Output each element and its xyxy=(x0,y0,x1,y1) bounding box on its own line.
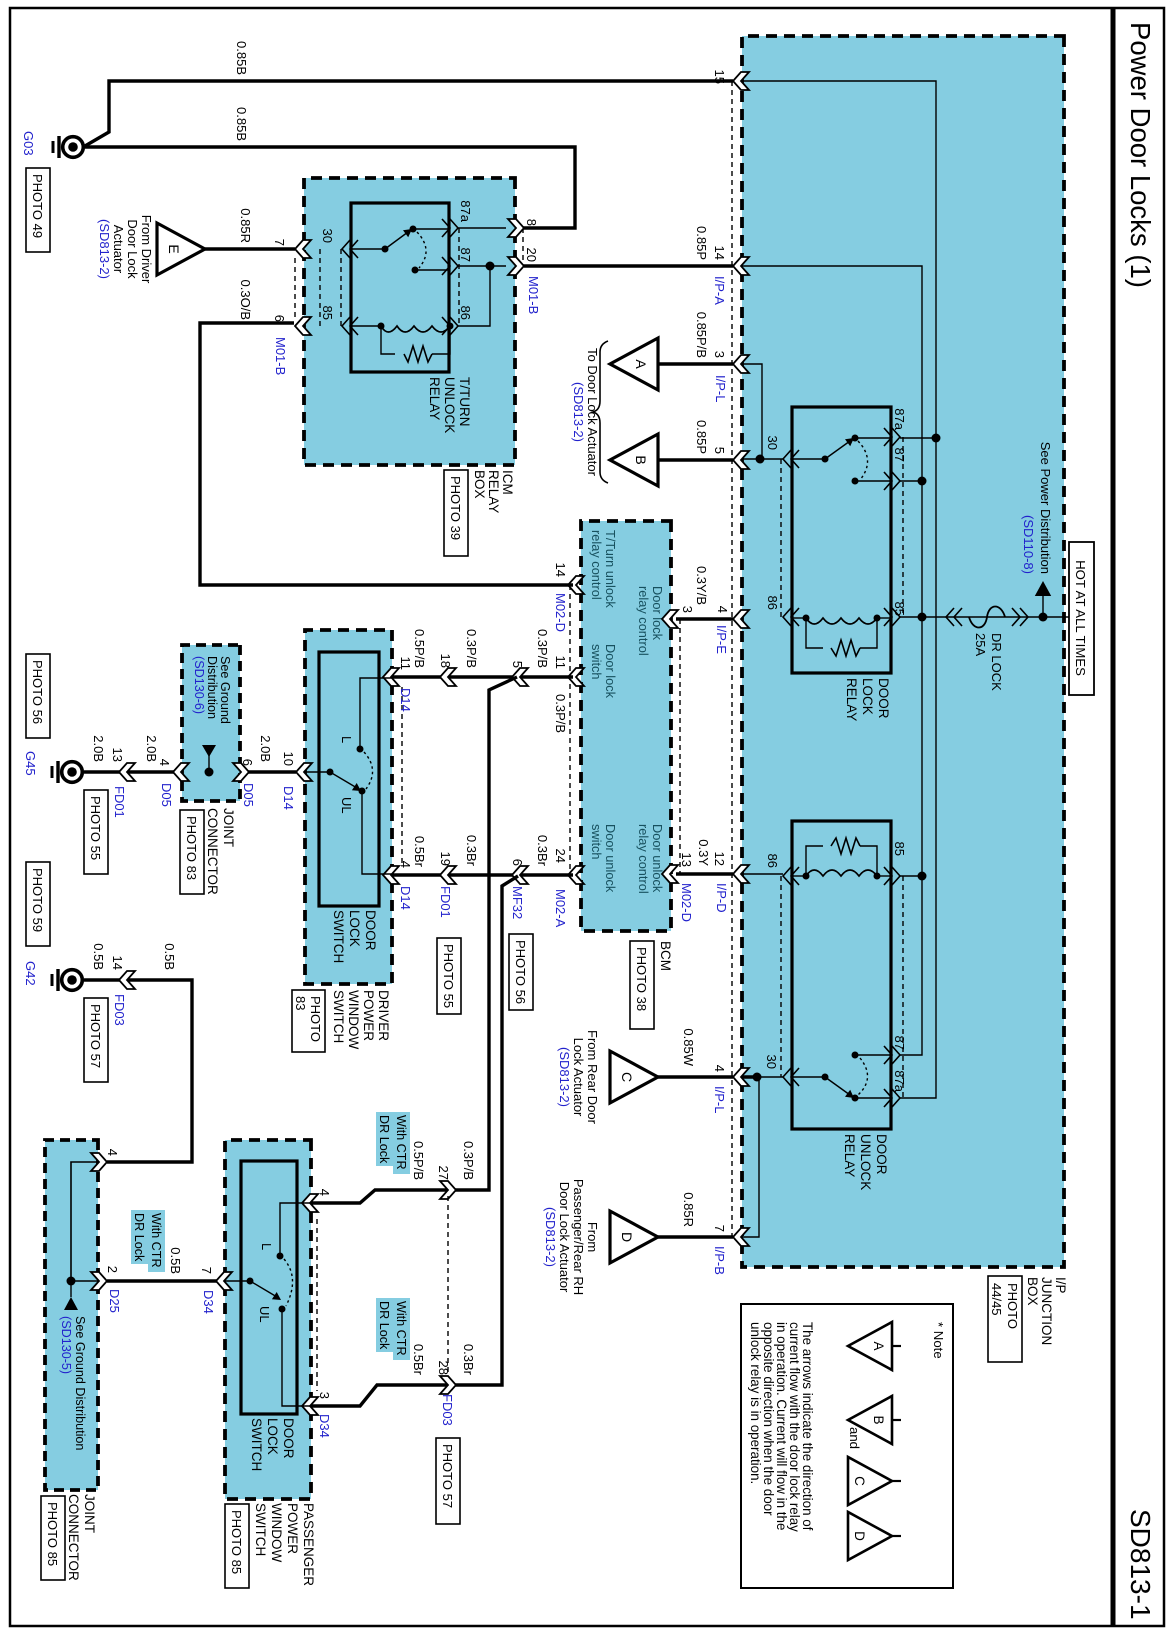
unlock relay switch arm xyxy=(792,1076,825,1078)
svg-text:DR Lock: DR Lock xyxy=(377,1115,391,1164)
svg-text:PHOTO 59: PHOTO 59 xyxy=(30,868,45,932)
svg-text:87: 87 xyxy=(892,1036,907,1050)
svg-text:12: 12 xyxy=(712,852,727,866)
wire: UL contact to pin 4 xyxy=(362,791,392,874)
svg-text:Actuator: Actuator xyxy=(111,225,126,274)
driver PWS pin 10 D14 xyxy=(296,763,312,781)
svg-text:86: 86 xyxy=(765,854,780,868)
svg-text:G42: G42 xyxy=(23,961,38,986)
lock relay contact 87a xyxy=(852,435,859,442)
unlock relay contact 87a xyxy=(852,1095,859,1102)
svg-text:4: 4 xyxy=(157,759,172,766)
svg-text:See Ground Distribution: See Ground Distribution xyxy=(73,1316,87,1450)
svg-text:From Rear Door: From Rear Door xyxy=(585,1030,600,1125)
note triangle A xyxy=(848,1322,892,1370)
t/turn relay connector dashes xyxy=(458,228,460,326)
svg-text:UL: UL xyxy=(339,797,354,814)
svg-text:13: 13 xyxy=(110,748,125,762)
svg-text:0.85B: 0.85B xyxy=(234,41,249,75)
svg-text:24: 24 xyxy=(553,849,568,863)
svg-text:C: C xyxy=(852,1476,867,1486)
PHOTO 83 label box (driver PWS) xyxy=(292,990,325,1052)
wire: ICM pin 20 to junction pin 14 (0.85P) xyxy=(524,264,733,267)
t/turn relay coil xyxy=(381,326,450,332)
svg-text:Door unlock: Door unlock xyxy=(650,824,665,893)
lock relay pin 87 xyxy=(884,472,900,490)
svg-text:0.3P/B: 0.3P/B xyxy=(464,629,479,668)
svg-text:Door unlock: Door unlock xyxy=(603,824,618,893)
PHOTO 39 label box xyxy=(444,470,468,556)
wire: driver pin 4 to BCM pin 24 (unlock signal) xyxy=(392,873,573,876)
note triangle C xyxy=(848,1457,892,1505)
svg-text:Door lock: Door lock xyxy=(603,644,618,699)
svg-text:D: D xyxy=(852,1531,867,1541)
svg-text:PHOTO 85: PHOTO 85 xyxy=(229,1510,244,1574)
svg-text:30: 30 xyxy=(320,229,335,243)
wire: L contact to pin 11 xyxy=(360,678,392,749)
svg-text:M02-D: M02-D xyxy=(679,883,694,922)
svg-text:I/P-L: I/P-L xyxy=(713,375,728,402)
svg-text:(SD813-2): (SD813-2) xyxy=(571,382,586,442)
svg-text:JUNCTION: JUNCTION xyxy=(1039,1277,1054,1345)
svg-text:relay control: relay control xyxy=(636,586,651,656)
svg-text:(SD813-2): (SD813-2) xyxy=(97,219,112,279)
note triangle B xyxy=(848,1396,892,1444)
svg-text:L: L xyxy=(339,736,354,743)
svg-text:10: 10 xyxy=(281,752,296,766)
svg-text:85: 85 xyxy=(892,602,907,616)
wire: junction pin 7 to triangle D xyxy=(658,1235,733,1238)
svg-text:87: 87 xyxy=(458,248,473,262)
junction pin 3 I/P-L xyxy=(733,355,749,373)
fuse upper connector chevrons xyxy=(1012,608,1028,626)
lock relay pin 86 xyxy=(783,608,799,626)
unlock relay contact 87 xyxy=(852,1052,859,1059)
wire: t/turn 87a to ICM pin 8 xyxy=(458,227,506,229)
With CTR DR Lock label (27) xyxy=(393,1112,410,1174)
driver switch contact L xyxy=(357,746,364,753)
svg-text:D34: D34 xyxy=(201,1290,216,1314)
passenger joint connector box (cyan) xyxy=(45,1140,98,1490)
wire: bus 85/87 power (pin 14 feed) xyxy=(742,266,922,1055)
svg-text:0.5B: 0.5B xyxy=(91,943,106,970)
t/turn relay pin 85 xyxy=(342,317,358,335)
svg-text:A: A xyxy=(633,359,649,369)
PHOTO 56 label box (MF32) xyxy=(509,934,533,1010)
PHOTO 85 label box (passenger PWS) xyxy=(225,1504,249,1588)
lock relay coil xyxy=(806,618,877,624)
node dot: bus to door lock relay 87 xyxy=(918,477,927,486)
svg-text:With CTR: With CTR xyxy=(394,1115,408,1170)
svg-text:switch: switch xyxy=(589,644,604,680)
PHOTO 49 label box xyxy=(26,168,50,252)
node dot driver joint connector xyxy=(205,768,214,777)
svg-text:7: 7 xyxy=(712,1225,727,1232)
passenger PWS pin 3 D34 xyxy=(302,1397,318,1415)
driver power window switch box (cyan) xyxy=(305,630,392,984)
node dot: bus to unlock relay 85 xyxy=(918,872,927,881)
svg-text:Door lock: Door lock xyxy=(650,586,665,641)
BCM pin 24 M02-A xyxy=(568,866,584,884)
svg-text:0.85B: 0.85B xyxy=(234,107,249,141)
svg-text:87a: 87a xyxy=(458,200,473,222)
svg-text:0.5B: 0.5B xyxy=(168,1247,183,1274)
svg-text:0.3Br: 0.3Br xyxy=(461,1344,476,1376)
unlock relay coil xyxy=(806,870,877,876)
svg-text:FD03: FD03 xyxy=(440,1394,455,1426)
driver PWS pin 11 D14 xyxy=(383,668,399,686)
driver joint pin 6 D05 xyxy=(233,763,249,781)
svg-text:MF32: MF32 xyxy=(510,886,525,919)
svg-text:D14: D14 xyxy=(281,786,296,810)
connector 5 on lock wire xyxy=(512,668,528,686)
svg-text:opposite direction when the do: opposite direction when the door xyxy=(761,1322,776,1516)
lock relay pin 85 xyxy=(884,608,900,626)
svg-text:UL: UL xyxy=(257,1306,272,1323)
lock relay switch arm xyxy=(792,458,825,460)
wire: joint pin 2 to passenger PWS pin 7 (0.5B) xyxy=(107,1279,225,1282)
wire: drop to lock relay 87 xyxy=(900,480,922,482)
svg-text:Passenger/Rear RH: Passenger/Rear RH xyxy=(571,1179,586,1295)
svg-text:A: A xyxy=(871,1341,886,1350)
svg-text:See Power Distribution: See Power Distribution xyxy=(1038,442,1053,574)
connector 18 FD01 on lock wire xyxy=(440,668,456,686)
svg-text:B: B xyxy=(633,455,649,464)
svg-text:0.5Br: 0.5Br xyxy=(411,1344,426,1376)
svg-text:20: 20 xyxy=(524,248,539,262)
wire: ICM pin 7 to triangle E (0.85R) xyxy=(205,247,295,250)
svg-text:E: E xyxy=(166,244,182,253)
lock relay coil resistor xyxy=(860,618,877,648)
svg-text:DRIVER: DRIVER xyxy=(376,990,391,1041)
svg-text:SWITCH: SWITCH xyxy=(253,1503,268,1556)
t/turn relay contact 87 xyxy=(412,267,419,274)
svg-text:(SD813-2): (SD813-2) xyxy=(557,1047,572,1107)
svg-text:HOT AT ALL TIMES: HOT AT ALL TIMES xyxy=(1073,560,1088,676)
wire: unlock relay 30 to pins 4 and 7 xyxy=(742,1077,783,1237)
svg-text:DOOR: DOOR xyxy=(363,910,378,951)
passenger PWS pin 4 D34 xyxy=(302,1194,318,1212)
ground distribution marker (driver) xyxy=(202,745,216,757)
I/P junction box (cyan) xyxy=(742,36,1064,1267)
svg-text:M01-B: M01-B xyxy=(526,276,541,314)
svg-text:DOOR: DOOR xyxy=(876,678,891,719)
svg-text:0.85W: 0.85W xyxy=(681,1028,696,1066)
svg-text:0.85R: 0.85R xyxy=(681,1192,696,1227)
triangle C xyxy=(610,1051,658,1103)
svg-text:25A: 25A xyxy=(973,633,988,656)
svg-text:I/P-B: I/P-B xyxy=(712,1246,727,1275)
svg-text:0.85P: 0.85P xyxy=(694,226,709,260)
svg-text:D34: D34 xyxy=(317,1414,332,1438)
svg-text:I/P-D: I/P-D xyxy=(714,883,729,913)
ground G45 xyxy=(62,762,83,783)
PHOTO 56 label box (G45) xyxy=(26,654,50,738)
svg-text:DOOR: DOOR xyxy=(281,1418,296,1459)
svg-text:87: 87 xyxy=(892,448,907,462)
svg-text:* Note: * Note xyxy=(931,1322,946,1359)
unlock relay pin 87 xyxy=(884,1046,900,1064)
svg-text:G03: G03 xyxy=(21,131,36,156)
svg-text:87a: 87a xyxy=(892,1070,907,1092)
svg-text:and: and xyxy=(847,1427,862,1449)
svg-text:RELAY: RELAY xyxy=(842,1134,857,1177)
svg-text:86: 86 xyxy=(458,306,473,320)
With CTR DR Lock label (0.5B wire) xyxy=(148,1210,165,1272)
node dot passenger joint xyxy=(67,1277,76,1286)
junction box pin dashes xyxy=(731,81,733,1237)
svg-text:0.3P/B: 0.3P/B xyxy=(553,694,568,733)
svg-text:(SD110-8): (SD110-8) xyxy=(1021,515,1036,574)
svg-text:ICM: ICM xyxy=(500,470,515,495)
svg-text:6: 6 xyxy=(272,315,287,322)
wire: t/turn 87 to ICM pin 20 xyxy=(458,265,506,267)
header separator line xyxy=(1111,8,1116,1626)
svg-text:2.0B: 2.0B xyxy=(91,735,106,762)
PHOTO 83 label box (driver joint) xyxy=(180,810,204,894)
svg-text:(SD130-5): (SD130-5) xyxy=(59,1316,73,1374)
ICM pin 20 M01-B xyxy=(508,257,524,275)
wire: BCM pin 14 to ICM pin 6 (0.3O/B) xyxy=(200,323,573,585)
svg-text:(SD130-6): (SD130-6) xyxy=(192,656,206,714)
svg-text:6: 6 xyxy=(510,859,525,866)
svg-text:With CTR: With CTR xyxy=(394,1301,408,1356)
node dot: bus to door lock relay 87a xyxy=(932,434,941,443)
ICM pin 8 xyxy=(508,219,524,237)
ICM relay box (cyan) xyxy=(304,178,515,465)
PHOTO 38 label box xyxy=(630,941,654,1029)
svg-text:0.3Br: 0.3Br xyxy=(535,835,550,867)
svg-text:M01-B: M01-B xyxy=(273,337,288,375)
svg-text:DOOR: DOOR xyxy=(874,1134,889,1175)
svg-text:RELAY: RELAY xyxy=(486,470,501,513)
unlock relay contact arc xyxy=(858,1058,868,1095)
svg-text:4: 4 xyxy=(105,1149,120,1156)
connector 6 MF32 on unlock wire xyxy=(512,866,528,884)
connector 19 FD01 on unlock wire xyxy=(440,866,456,884)
wire: t/turn 86 to pin 20 wire xyxy=(458,267,490,326)
PHOTO 55 label box (FD01 ground) xyxy=(84,790,108,874)
passenger power window switch box (cyan) xyxy=(225,1140,311,1499)
wire: passenger pin 3 to BCM unlock wire (0.5Br->0.3Br) xyxy=(311,876,518,1406)
svg-text:11: 11 xyxy=(398,657,413,671)
junction pin 4 I/P-L (to C) xyxy=(733,1068,749,1086)
svg-text:PHOTO 56: PHOTO 56 xyxy=(513,940,528,1004)
connector 27 on passenger lock wire xyxy=(440,1181,456,1199)
svg-text:PHOTO 57: PHOTO 57 xyxy=(440,1444,455,1508)
svg-text:(SD813-2): (SD813-2) xyxy=(543,1207,558,1267)
svg-text:SWITCH: SWITCH xyxy=(331,990,346,1043)
unlock relay pin 86 xyxy=(783,867,799,885)
svg-text:switch: switch xyxy=(589,824,604,860)
svg-text:D14: D14 xyxy=(398,688,413,712)
PHOTO 55 label box (FD01) xyxy=(437,938,461,1014)
svg-text:The arrows indicate the direct: The arrows indicate the direction of xyxy=(800,1322,815,1531)
lock relay contact arc xyxy=(858,441,868,480)
svg-text:7: 7 xyxy=(199,1267,214,1274)
svg-text:BOX: BOX xyxy=(1025,1277,1040,1306)
svg-text:28: 28 xyxy=(436,1361,451,1375)
t/turn relay pin 87 xyxy=(442,257,458,275)
svg-text:relay control: relay control xyxy=(636,824,651,894)
triangle D xyxy=(610,1211,658,1263)
wire: driver pin 11 to BCM pin 11 (lock signal) xyxy=(392,675,573,678)
svg-text:SWITCH: SWITCH xyxy=(249,1418,264,1471)
svg-text:0.5B: 0.5B xyxy=(162,943,177,970)
PHOTO 57 label box (FD03 28) xyxy=(436,1438,460,1524)
svg-text:L: L xyxy=(259,1243,274,1250)
svg-text:PHOTO 38: PHOTO 38 xyxy=(634,947,649,1011)
see power distribution arrow xyxy=(1042,596,1044,617)
svg-text:D: D xyxy=(619,1232,635,1242)
brace under A and B xyxy=(593,341,608,483)
svg-text:PHOTO 55: PHOTO 55 xyxy=(88,796,103,860)
BCM box (cyan) xyxy=(581,521,671,931)
wire: bus 87a (pin 15 feed) xyxy=(742,81,936,1098)
svg-text:B: B xyxy=(871,1415,886,1424)
junction pin 5 xyxy=(733,451,749,469)
driver PWS top pin dashes xyxy=(401,687,403,863)
svg-text:PHOTO 85: PHOTO 85 xyxy=(45,1502,60,1566)
svg-text:13: 13 xyxy=(679,853,694,867)
svg-text:Power Door Locks (1): Power Door Locks (1) xyxy=(1125,22,1156,288)
PHOTO 85 label box (passenger joint) xyxy=(41,1496,65,1580)
driver PWS pin 4 D14 xyxy=(383,866,399,884)
svg-text:6: 6 xyxy=(240,759,255,766)
svg-text:87a: 87a xyxy=(892,408,907,430)
lock relay contact 87 xyxy=(852,478,859,485)
wire: pin 5 to triangle B xyxy=(658,458,733,461)
svg-text:11: 11 xyxy=(553,656,568,670)
PHOTO 44/45 label box xyxy=(988,1276,1022,1362)
junction pin 7 I/P-B (to D) xyxy=(733,1228,749,1246)
svg-text:3: 3 xyxy=(680,606,695,613)
wire: passenger L contact to pin 4 xyxy=(280,1203,311,1256)
t/turn relay coil resistor xyxy=(432,326,450,354)
svg-text:SD813-1: SD813-1 xyxy=(1125,1509,1156,1620)
svg-text:2: 2 xyxy=(105,1266,120,1273)
lock relay pin 30 xyxy=(783,450,799,468)
svg-text:relay control: relay control xyxy=(589,530,604,600)
svg-text:D05: D05 xyxy=(241,783,256,807)
unlock relay pin 87a xyxy=(884,1089,900,1107)
svg-text:PHOTO 39: PHOTO 39 xyxy=(448,476,463,540)
svg-text:Door Lock: Door Lock xyxy=(125,219,140,279)
svg-text:0.3Br: 0.3Br xyxy=(464,835,479,867)
svg-text:D05: D05 xyxy=(159,783,174,807)
svg-text:LOCK: LOCK xyxy=(265,1418,280,1455)
BCM pin 11 xyxy=(568,668,584,686)
PHOTO 59 label box (G42) xyxy=(26,862,50,946)
connector 28 FD03 on passenger unlock wire xyxy=(440,1376,456,1394)
svg-text:current flow with the door loc: current flow with the door lock relay xyxy=(787,1322,802,1532)
svg-text:0.5P/B: 0.5P/B xyxy=(412,629,427,668)
With CTR DR Lock label (28) xyxy=(393,1298,410,1360)
svg-text:44/45: 44/45 xyxy=(989,1283,1004,1316)
svg-text:PHOTO 57: PHOTO 57 xyxy=(88,1004,103,1068)
passenger switch contact L xyxy=(277,1253,284,1260)
driver joint connector box (cyan) xyxy=(182,645,240,801)
driver joint pin 4 D05 xyxy=(173,763,189,781)
driver switch common xyxy=(305,771,330,773)
wire: junction pin 12 to BCM pin 13 (0.3Y) xyxy=(676,872,733,875)
svg-text:18: 18 xyxy=(438,654,453,668)
svg-text:SWITCH: SWITCH xyxy=(331,910,346,963)
svg-text:From: From xyxy=(585,1222,600,1252)
driver door lock switch inner box xyxy=(319,652,379,906)
unlock relay coil resistor xyxy=(860,846,877,876)
svg-text:RELAY: RELAY xyxy=(844,678,859,721)
connector 14 FD03 on G42 wire xyxy=(119,971,135,989)
svg-text:CONNECTOR: CONNECTOR xyxy=(205,808,220,895)
svg-text:WINDOW: WINDOW xyxy=(346,990,361,1049)
power feed wire from HOT AT ALL TIMES xyxy=(922,616,1069,618)
passenger switch common xyxy=(225,1280,250,1282)
passenger switch arm to UL xyxy=(250,1281,277,1297)
ICM pin 7 xyxy=(295,240,311,258)
svg-text:0.3Y: 0.3Y xyxy=(696,839,711,866)
svg-text:D14: D14 xyxy=(398,886,413,910)
svg-text:M02-A: M02-A xyxy=(553,889,568,928)
svg-text:I/P: I/P xyxy=(1053,1277,1068,1294)
svg-text:4: 4 xyxy=(712,1065,727,1072)
junction pin 4 I/P-E xyxy=(733,610,749,628)
passenger joint pin 2 D25 xyxy=(91,1272,107,1290)
node dot: fuse feed on bus xyxy=(918,613,927,622)
svg-text:3: 3 xyxy=(712,351,727,358)
svg-text:0.3Y/B: 0.3Y/B xyxy=(694,566,709,605)
svg-text:C: C xyxy=(619,1072,635,1082)
svg-text:DR LOCK: DR LOCK xyxy=(989,633,1004,691)
svg-text:85: 85 xyxy=(892,842,907,856)
svg-text:With CTR: With CTR xyxy=(149,1213,163,1268)
svg-text:T/Turn unlock: T/Turn unlock xyxy=(603,530,618,608)
svg-text:Distribution: Distribution xyxy=(205,656,219,719)
svg-text:8: 8 xyxy=(524,219,539,226)
wire: drop to lock relay 87a xyxy=(900,437,936,439)
svg-text:2.0B: 2.0B xyxy=(258,735,273,762)
wire: drop to unlock relay 85 xyxy=(900,875,922,877)
svg-text:86: 86 xyxy=(765,596,780,610)
junction pin 12 I/P-D xyxy=(733,865,749,883)
svg-text:I/P-A: I/P-A xyxy=(712,276,727,305)
ICM bottom pin dashes xyxy=(294,258,296,318)
fuse lower connector chevrons xyxy=(946,608,962,626)
wire: junction pin 4 to BCM pin 3 (0.3Y/B) xyxy=(676,617,733,620)
svg-text:POWER: POWER xyxy=(285,1503,300,1554)
ground G42 xyxy=(62,970,83,991)
connector dash 27-28 xyxy=(447,1196,449,1374)
svg-text:0.85R: 0.85R xyxy=(238,208,253,243)
svg-text:BCM: BCM xyxy=(658,941,673,971)
svg-text:7: 7 xyxy=(272,239,287,246)
unlock relay pin 85 xyxy=(884,867,900,885)
svg-text:POWER: POWER xyxy=(361,990,376,1041)
svg-text:M02-D: M02-D xyxy=(553,593,568,632)
ground distribution marker (passenger) xyxy=(64,1297,78,1310)
t/turn relay pin 87a xyxy=(442,219,458,237)
node: power feed junction dot xyxy=(1039,613,1048,622)
wire: junction pin 4 to triangle C xyxy=(658,1075,733,1078)
svg-text:From Driver: From Driver xyxy=(139,215,154,284)
BCM pin 14 M02-D xyxy=(568,576,584,594)
triangle B xyxy=(610,434,658,486)
svg-text:LOCK: LOCK xyxy=(347,910,362,947)
driver switch contact UL xyxy=(359,788,366,795)
svg-text:unlock relay is in operation.: unlock relay is in operation. xyxy=(748,1322,763,1484)
svg-text:DR Lock: DR Lock xyxy=(132,1213,146,1262)
passenger PWS pin 7 D34 xyxy=(216,1272,232,1290)
